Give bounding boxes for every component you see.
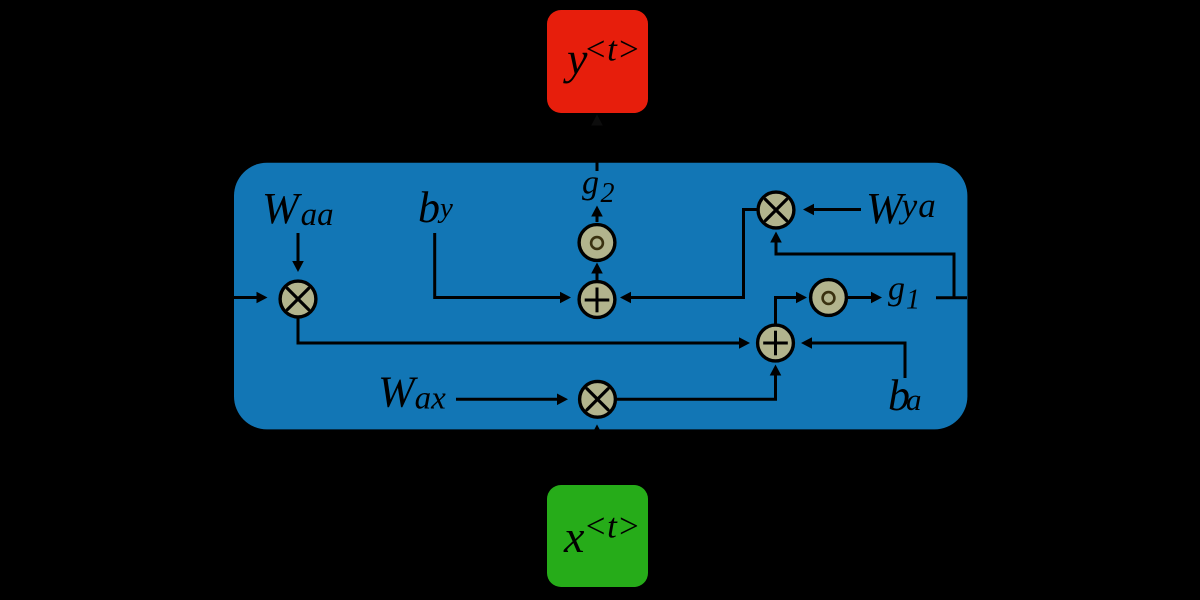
svg-text:<t>: <t> (1063, 235, 1117, 271)
op: center plus (Wya*a + b_y) (579, 282, 615, 318)
op: right plus (Waa*a + Wax*x + b_a) (758, 325, 794, 361)
wire: feedback up into xy multiply (775, 242, 778, 254)
wire: x1 output down then right into right plus (298, 319, 740, 344)
svg-text:<t>: <t> (584, 30, 641, 69)
svg-text:x: x (563, 511, 585, 562)
wire: Waa down arrow into x1 (297, 233, 300, 262)
op: multiply x3 (Wax*x) (580, 381, 616, 417)
wire: x input link with arrow into x3 multiply (596, 435, 599, 484)
svg-text:a: a (1039, 233, 1061, 282)
wire: right plus up then right into right activation (776, 298, 797, 325)
wire: a<t-1> input arrow into x1 multiply (195, 296, 257, 299)
svg-text:a: a (72, 233, 94, 282)
wire: right activation to g1 (847, 296, 872, 299)
wire: g1 output to box edge (936, 296, 967, 299)
output box y<t> (red) (547, 10, 648, 113)
op: right activation g1 (811, 280, 847, 316)
svg-text:<t-1>: <t-1> (96, 235, 177, 271)
wire: Wya arrow into xy multiply (814, 208, 862, 211)
wire: center activation up to g2 (596, 216, 599, 222)
wire: x3 output right then up into right plus (616, 375, 776, 399)
svg-text:<t>: <t> (584, 507, 641, 546)
wire: b_y down then right into center plus (435, 233, 561, 298)
RNN cell body (blue rounded box) (234, 163, 967, 430)
op: multiply xy (Wya*a) (758, 192, 794, 228)
wire: Wax arrow into x3 multiply (456, 398, 558, 401)
wire: feedback left at y=254 (775, 253, 956, 256)
wire: center plus up into center activation (596, 273, 599, 281)
wire: xy multiply output left-down into center plus (631, 210, 759, 298)
op: center activation g2 (579, 225, 615, 261)
wire: junction up (953, 253, 956, 298)
wire: y output link (g2 to y box) (596, 125, 599, 171)
op: multiply x1 (a*Waa) (280, 281, 316, 317)
wire: b_a up then left into right plus (812, 343, 906, 378)
input box x<t> (green) (547, 485, 648, 587)
